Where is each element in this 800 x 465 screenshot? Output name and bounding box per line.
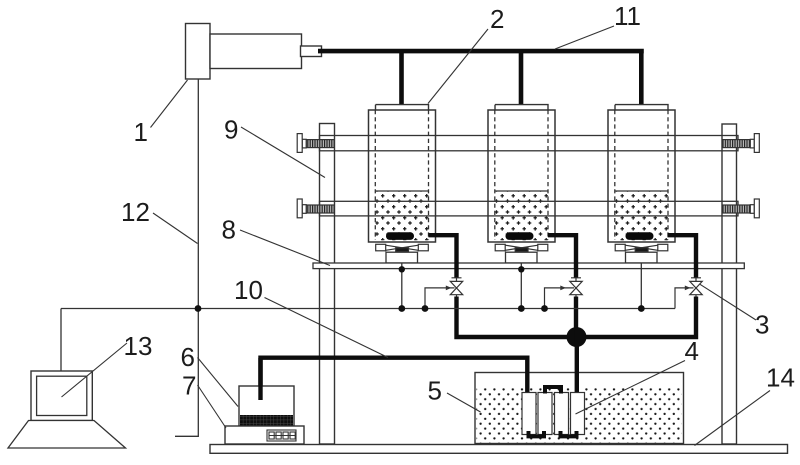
base plate 14 [210,445,788,454]
controller display [267,430,296,441]
drain wire V2 [520,264,522,309]
leader 6 [198,358,239,407]
thick manifold to pump 4 [457,297,697,338]
leader 3 [700,284,756,320]
vessel V2 [488,105,555,242]
pedestal V1 [386,252,418,263]
monitor riser wire [60,309,62,372]
pump (circulation) [567,327,587,347]
vessel V3 [608,105,675,242]
signal bus wire (computer to valves) [61,308,675,310]
screw rail1 left [297,134,334,153]
svg-text:7: 7 [182,371,196,401]
rail lower 9 [320,201,739,216]
computer monitor 13 [31,371,92,421]
leader 13 [62,343,128,397]
coil top bridge 4 [545,387,561,394]
svg-text:1: 1 [134,117,148,147]
leader 7 [198,385,227,428]
coil tube T2 [538,393,552,435]
cooling tube 10 (bath to coil) [261,358,528,400]
thick outlet pipe V2 [548,235,576,278]
control wire valve 3b [545,288,575,309]
shelf 8 [313,263,744,269]
svg-text:8: 8 [222,215,236,245]
svg-text:5: 5 [428,376,442,406]
pump outlet down to coil [575,330,579,393]
leader 9 [241,127,325,178]
svg-text:14: 14 [766,363,795,393]
svg-text:13: 13 [124,331,153,361]
vessel V1 [369,105,436,242]
computer stand [8,421,126,449]
screw rail2 right [722,199,759,218]
leader 14 [695,391,771,446]
stirrer assembly V2 [495,244,548,251]
rail upper 9 [320,136,739,151]
leader 12 [153,213,198,244]
leader 11 [555,26,614,49]
stir bar V1 [386,232,414,240]
drain wire V1 [401,264,403,309]
syringe pump 1 body [186,24,322,80]
thick outlet pipe V3 [668,235,697,278]
coil tube T1 [522,393,536,435]
water bath 6 [239,386,294,426]
supply manifold 11 [318,51,644,105]
drain wire V3 [640,264,642,309]
leader 2 [428,29,488,104]
stirrer assembly V1 [376,244,429,251]
signal line 12 vertical [175,79,198,436]
svg-text:9: 9 [224,115,238,145]
pedestal V3 [626,252,658,263]
stir bar V2 [506,232,534,240]
control wire valve 3c [675,288,694,309]
controller base 7 [225,426,304,444]
stir bar V3 [626,232,654,240]
valve 3a (under V1) [450,278,462,298]
svg-text:10: 10 [234,275,263,305]
svg-text:6: 6 [181,342,195,372]
svg-text:4: 4 [685,336,699,366]
valve 3b (under V2) [570,278,582,298]
junction dot at 12 [195,305,202,312]
coil tube T4 [571,393,585,435]
leader 10 [265,298,389,358]
svg-text:2: 2 [490,4,504,34]
screw rail2 left [297,199,334,218]
screw rail1 right [722,134,759,153]
thick outlet pipe V1 [429,235,457,278]
svg-text:11: 11 [614,1,641,31]
water tank 5 [475,373,684,444]
stirrer assembly V3 [615,244,668,251]
svg-text:12: 12 [121,197,150,227]
bath inlet tube [258,358,262,400]
leader 8 [240,230,330,266]
control wire valve 3a [425,288,455,309]
frame right post 9 [722,124,737,444]
coil tube T3 [555,393,569,435]
frame left post 9 [320,124,335,445]
coil bottom bridge left [529,431,545,436]
leader 1 [151,80,188,128]
svg-text:3: 3 [755,310,769,340]
coil bottom bridge right [561,431,577,436]
valve 3c (under V3) [690,278,702,298]
pedestal V2 [506,252,538,263]
leader 5 [447,393,481,412]
leader 4 [576,361,686,415]
